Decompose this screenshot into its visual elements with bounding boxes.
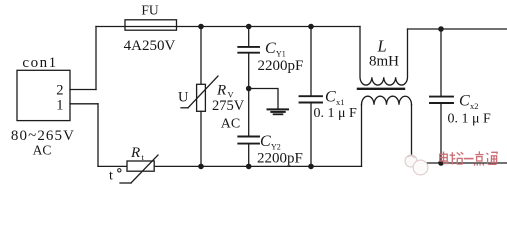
choke core bar (358, 88, 404, 90)
thermistor Rt diagonal (131, 155, 158, 183)
svg-text:0. 1 μ F: 0. 1 μ F (314, 106, 358, 121)
svg-text:1: 1 (56, 98, 63, 114)
capacitor CY2 plates (238, 136, 259, 138)
svg-text:2: 2 (56, 83, 63, 99)
svg-text:8mH: 8mH (369, 54, 399, 70)
svg-text:U: U (178, 89, 189, 105)
choke bottom winding left lead (361, 105, 363, 167)
ground bar 2 (271, 111, 284, 113)
thermistor Rt body (127, 161, 154, 171)
ground tap wire (249, 89, 278, 109)
capacitor CX2 wire bottom (440, 103, 442, 163)
wire bottom rail left (98, 165, 362, 167)
watermark logo circles (405, 155, 428, 175)
ground bar 3 (274, 113, 283, 115)
svg-text:C: C (265, 40, 276, 57)
fuse FU (125, 20, 177, 30)
capacitor CX1 wire top (310, 27, 312, 96)
svg-text:0. 1 μ F: 0. 1 μ F (448, 112, 492, 127)
junction node mid CY (246, 86, 252, 92)
junction node top CY1 (246, 24, 252, 30)
junction node top CX1 (308, 24, 314, 30)
svg-text:C: C (459, 93, 470, 110)
connector con1 box (17, 70, 70, 120)
watermark text yi (464, 158, 474, 160)
pin 2 stub (70, 89, 96, 91)
watermark text dian2 (474, 151, 484, 165)
svg-text:con1: con1 (22, 55, 57, 71)
varistor RV diagonal (188, 76, 218, 108)
svg-text:R: R (216, 82, 226, 98)
svg-text:FU: FU (141, 2, 159, 17)
svg-text:x2: x2 (470, 101, 479, 111)
choke L bottom winding (362, 96, 412, 105)
svg-text:2200pF: 2200pF (257, 151, 303, 167)
junction node bottom CX2 (438, 160, 444, 166)
junction node top CX2 (438, 26, 444, 32)
capacitor CX1 wire bottom (310, 103, 312, 167)
svg-text:2200pF: 2200pF (258, 58, 304, 74)
junction node top varistor (198, 24, 204, 30)
svg-text:C: C (260, 133, 271, 150)
junction node bottom CY2 (246, 164, 252, 170)
wire pin1 down to bottom rail (97, 104, 99, 167)
wire CY1 to mid node (248, 53, 250, 89)
svg-text:L: L (377, 36, 387, 55)
pin 1 stub (70, 103, 98, 105)
varistor RV wire top (200, 27, 202, 85)
wire top rail right (408, 28, 507, 30)
capacitor CY1 wire top (248, 27, 250, 47)
watermark text dian (440, 152, 448, 164)
varistor RV wire bottom (200, 111, 202, 166)
varistor RV foot (181, 107, 188, 109)
capacitor CX2 plates (430, 96, 453, 98)
junction node bottom varistor (198, 164, 204, 170)
ground bar 1 (268, 108, 289, 110)
watermark text lu (450, 152, 464, 164)
capacitor CY1 plates (238, 46, 259, 48)
wire pin2 up to top rail (95, 27, 97, 90)
svg-text:AC: AC (33, 143, 52, 158)
svg-text:AC: AC (221, 117, 240, 132)
choke L top winding (360, 27, 408, 86)
wire bottom rail right (412, 162, 507, 164)
wire mid node to CY2 (248, 89, 250, 137)
junction node bottom CX1 (308, 164, 314, 170)
varistor RV body (197, 84, 206, 111)
svg-text:C: C (325, 89, 336, 106)
svg-text:R: R (130, 145, 140, 161)
capacitor CY2 wire bottom (248, 144, 250, 167)
choke bottom winding right lead (411, 105, 413, 163)
capacitor CX2 wire top (440, 29, 442, 96)
svg-text:275V: 275V (212, 98, 245, 114)
watermark text tong (486, 152, 497, 164)
svg-text:t: t (109, 169, 113, 184)
capacitor CX1 plates (300, 95, 323, 97)
svg-text:4A250V: 4A250V (124, 38, 176, 54)
thermistor Rt foot (120, 182, 131, 184)
wire top rail left (96, 26, 360, 28)
